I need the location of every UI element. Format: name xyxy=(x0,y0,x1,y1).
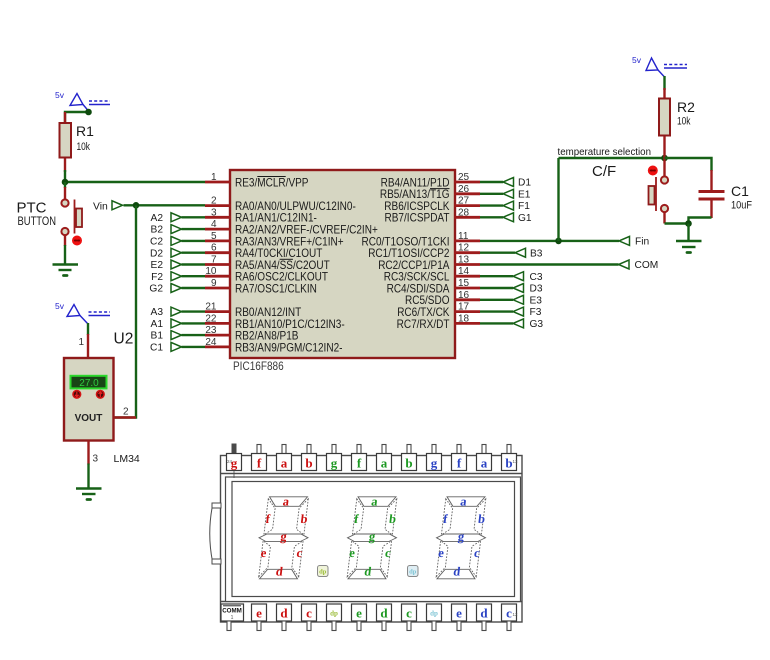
terminal D3 xyxy=(513,284,543,295)
display decimal point 2 xyxy=(408,566,419,577)
svg-text:c: c xyxy=(506,606,512,621)
terminal E2 xyxy=(151,260,182,271)
wire C2 to pin xyxy=(182,240,206,242)
svg-text:C3: C3 xyxy=(530,272,543,283)
svg-text:26: 26 xyxy=(458,184,470,195)
power +5V supply (above U2) xyxy=(67,305,110,325)
svg-text:B1: B1 xyxy=(151,331,164,342)
pin 5 (RA3/AN3/VREF+/C1IN+) stub xyxy=(205,239,231,242)
svg-text:g: g xyxy=(331,456,338,471)
terminal B1 xyxy=(151,331,182,342)
svg-text:A3: A3 xyxy=(151,307,164,318)
svg-text:16: 16 xyxy=(458,290,470,301)
terminal G3 xyxy=(513,319,543,330)
wire temperature selection horizontal xyxy=(559,157,665,159)
wire junction down to PTC xyxy=(64,182,66,188)
svg-text:21: 21 xyxy=(205,302,217,313)
terminal C1 xyxy=(150,342,182,353)
svg-text:1: 1 xyxy=(231,615,234,621)
wire pin to F3 xyxy=(480,310,513,312)
pin 16 (RC5/SDO) stub xyxy=(454,298,480,301)
wire pin12 to B3 xyxy=(480,251,515,253)
pin 27 (RB6/ICSPCLK) stub xyxy=(454,204,480,207)
svg-text:RB7/ICSPDAT: RB7/ICSPDAT xyxy=(385,211,451,225)
svg-text:14: 14 xyxy=(458,266,470,277)
wire A1 to pin xyxy=(182,322,206,324)
svg-text:B3: B3 xyxy=(530,248,543,259)
svg-text:e: e xyxy=(256,606,262,621)
wire pin to E1 xyxy=(480,193,503,195)
wire D2 to pin xyxy=(182,251,206,253)
svg-text:G3: G3 xyxy=(530,319,544,330)
svg-text:11: 11 xyxy=(458,231,469,242)
svg-text:C/F: C/F xyxy=(592,163,616,180)
svg-text:F1: F1 xyxy=(518,201,530,212)
svg-text:f: f xyxy=(257,456,262,471)
node Fin junction xyxy=(555,238,562,245)
pin 10 (RA6/OSC2/CLKOUT) stub xyxy=(205,275,231,278)
wire pin to E3 xyxy=(480,299,513,301)
node R2/button/C1 junction xyxy=(661,155,668,162)
pin 9 (RA7/OSC1/CLKIN) stub xyxy=(205,287,231,290)
svg-text:24: 24 xyxy=(227,459,233,464)
ground under PTC xyxy=(53,265,79,276)
svg-text:b: b xyxy=(305,456,312,471)
wire Vin to PIC pin 2 xyxy=(124,204,206,206)
svg-text:13: 13 xyxy=(513,459,519,464)
display top pin 5 (g) xyxy=(327,445,342,471)
pin 28 (RB7/ICSPDAT) stub xyxy=(454,216,480,219)
display bottom pin 7 (c) xyxy=(402,604,417,631)
svg-text:U2: U2 xyxy=(114,331,134,348)
svg-text:3: 3 xyxy=(211,207,217,218)
svg-text:dp: dp xyxy=(409,569,417,576)
display left common bracket xyxy=(210,503,221,564)
pin stub U2 pin3 / wire to ground xyxy=(87,441,89,465)
display digit 1 (red) xyxy=(254,494,313,578)
terminal C3 xyxy=(513,272,543,283)
display top pin 11 (a) xyxy=(477,445,492,471)
wire pin13 to COM xyxy=(480,263,619,265)
svg-text:27.0: 27.0 xyxy=(79,378,99,389)
display bottom pin 9 (e) xyxy=(452,604,467,631)
push button PTC BUTTON xyxy=(17,199,83,245)
pin 2 (RA0/AN0/ULPWU/C12IN0-) stub xyxy=(205,204,231,207)
display bottom pin 1 (e) xyxy=(252,604,267,631)
display bottom pin 5 (e) xyxy=(352,604,367,631)
node ground junction xyxy=(685,220,692,227)
ground top right xyxy=(676,241,702,253)
pin 11 (RC0/T1OSO/T1CKI) stub xyxy=(454,239,480,242)
svg-text:10uF: 10uF xyxy=(731,200,752,212)
pin 7 (RA5/AN4/SS/C2OUT) stub xyxy=(205,263,231,266)
display top pin 10 (f) xyxy=(452,445,467,471)
display top pin 2 (f) xyxy=(252,445,267,471)
svg-text:C1: C1 xyxy=(731,183,749,199)
svg-text:COMM: COMM xyxy=(222,608,242,615)
overline SS xyxy=(280,258,293,260)
svg-text:12: 12 xyxy=(458,243,470,254)
svg-text:23: 23 xyxy=(205,325,217,336)
svg-text:1: 1 xyxy=(211,172,217,183)
terminal A1 xyxy=(151,319,182,330)
display face xyxy=(226,477,521,602)
svg-text:Fin: Fin xyxy=(635,237,649,248)
svg-text:18: 18 xyxy=(458,313,470,324)
svg-text:B2: B2 xyxy=(151,225,164,236)
wire 5v to U2 pin 1 xyxy=(87,323,89,335)
wire pin to D3 xyxy=(480,287,513,289)
display top pin 7 (a) xyxy=(377,445,392,471)
wire junction to ground xyxy=(687,224,689,242)
wire pin to D1 xyxy=(480,181,503,183)
svg-text:BUTTON: BUTTON xyxy=(18,216,57,228)
svg-text:4: 4 xyxy=(211,219,217,230)
terminal D2 xyxy=(150,248,182,259)
terminal F1 xyxy=(503,201,530,212)
resistor R1 10k xyxy=(60,112,95,172)
svg-text:15: 15 xyxy=(458,278,470,289)
display bottom pin 10 (d) xyxy=(477,604,492,631)
node at 5v terminal xyxy=(85,109,92,116)
svg-text:1: 1 xyxy=(78,337,84,348)
display top pin 8 (b) xyxy=(402,445,417,471)
svg-text:f: f xyxy=(457,456,462,471)
svg-text:D3: D3 xyxy=(530,284,543,295)
terminal Vin xyxy=(93,201,123,213)
svg-text:6: 6 xyxy=(211,243,217,254)
microcontroller U1 PIC16F886 body xyxy=(230,170,455,358)
pin 3 (RA1/AN1/C12IN1-) stub xyxy=(205,216,231,219)
wire pin to G3 xyxy=(480,322,513,324)
svg-text:dp: dp xyxy=(430,610,438,618)
svg-text:7: 7 xyxy=(211,255,217,266)
svg-text:f: f xyxy=(357,456,362,471)
wire 5v node to R1 xyxy=(65,112,89,123)
push button C/F xyxy=(648,166,668,213)
svg-text:5v: 5v xyxy=(55,90,65,100)
wire R1 bottom to PIC pin 1 xyxy=(65,170,205,182)
power +5V supply (top right) xyxy=(646,58,687,77)
svg-text:RA7/OSC1/CLKIN: RA7/OSC1/CLKIN xyxy=(235,281,317,295)
terminal C2 xyxy=(150,236,182,247)
wire E2 to pin xyxy=(182,263,206,265)
terminal Fin xyxy=(619,236,649,247)
svg-text:dp: dp xyxy=(319,569,327,576)
svg-text:28: 28 xyxy=(458,207,470,218)
pin 12 (RC1/T1OSI/CCP2) stub xyxy=(454,251,480,254)
svg-text:g: g xyxy=(431,456,438,471)
display bottom pin 11 (c) xyxy=(502,604,519,631)
wire C/F button to ground junction xyxy=(663,212,665,224)
svg-text:temperature selection: temperature selection xyxy=(558,146,652,158)
pin 13 (RC2/CCP1/P1A) stub xyxy=(454,263,480,266)
svg-text:9: 9 xyxy=(211,278,217,289)
pin 21 (RB0/AN12/INT) stub xyxy=(205,310,231,313)
svg-text:C1: C1 xyxy=(150,343,163,354)
display decimal point 1 xyxy=(318,566,329,577)
wire Vin junction down to LM34 VOUT xyxy=(114,205,137,417)
svg-text:2: 2 xyxy=(211,196,217,207)
wire Fin junction up to temperature selection net xyxy=(557,158,559,241)
overline T1G xyxy=(430,188,450,190)
svg-text:10k: 10k xyxy=(77,141,91,153)
terminal D1 xyxy=(503,178,531,189)
wire pin to G1 xyxy=(480,216,503,218)
display top pin 9 (g) xyxy=(427,445,442,471)
svg-text:dp: dp xyxy=(330,610,338,618)
terminal COM xyxy=(619,260,659,271)
display top pin 3 (a) xyxy=(277,445,292,471)
terminal B2 xyxy=(151,225,182,236)
ground under U2 xyxy=(76,489,102,500)
svg-text:PTC: PTC xyxy=(17,200,47,217)
wire B1 to pin xyxy=(182,334,206,336)
pin 25 (RB4/AN11/P1D) stub xyxy=(454,181,480,184)
pin 22 (RB1/AN10/P1C/C12IN3-) stub xyxy=(205,322,231,325)
wire pin to F1 xyxy=(480,204,503,206)
pin 18 (RC7/RX/DT) stub xyxy=(454,322,480,325)
wire B2 to pin xyxy=(182,228,206,230)
display bottom pin 4 (dp) xyxy=(327,604,342,631)
svg-text:13: 13 xyxy=(458,255,470,266)
wire pin to C3 xyxy=(480,275,513,277)
capacitor C1 10uF xyxy=(699,170,753,218)
svg-text:D2: D2 xyxy=(150,248,163,259)
svg-text:COM: COM xyxy=(635,260,659,271)
terminal G1 xyxy=(503,213,532,224)
svg-text:R2: R2 xyxy=(677,99,695,115)
terminal F3 xyxy=(513,307,542,318)
power +5V supply (top left) xyxy=(70,94,110,112)
svg-text:G2: G2 xyxy=(149,284,163,295)
svg-text:c: c xyxy=(406,606,412,621)
svg-text:Vin: Vin xyxy=(93,202,108,213)
display digit 3 (blue) xyxy=(431,494,490,578)
wire pin11 to Fin xyxy=(480,240,619,242)
svg-text:RB3/AN9/PGM/C12IN2-: RB3/AN9/PGM/C12IN2- xyxy=(235,340,343,354)
svg-text:2: 2 xyxy=(123,407,129,418)
wire junction to C1 xyxy=(665,158,712,171)
display digit 2 (green) xyxy=(342,494,401,578)
terminal E3 xyxy=(513,295,542,306)
node Vin junction xyxy=(133,202,140,209)
svg-text:a: a xyxy=(381,456,388,471)
display bottom pin 8 (dp) xyxy=(427,604,442,631)
display top pin 6 (f) xyxy=(352,445,367,471)
svg-text:E3: E3 xyxy=(530,295,543,306)
pin 17 (RC6/TX/CK) stub xyxy=(454,310,480,313)
svg-text:a: a xyxy=(481,456,488,471)
display top pin 12 (b) xyxy=(502,445,519,471)
svg-text:25: 25 xyxy=(458,172,470,183)
svg-text:LM34: LM34 xyxy=(114,453,140,465)
display bottom pin 0 (COMM) xyxy=(221,604,244,631)
wire A2 to pin xyxy=(182,216,206,218)
svg-text:c: c xyxy=(306,606,312,621)
pin stub U2 pin2 xyxy=(114,416,137,418)
resistor R2 10k xyxy=(659,88,695,158)
svg-text:F3: F3 xyxy=(530,307,542,318)
svg-text:PIC16F886: PIC16F886 xyxy=(233,359,284,373)
svg-text:VOUT: VOUT xyxy=(75,413,103,424)
wire junction to C/F button xyxy=(663,158,665,177)
svg-text:R1: R1 xyxy=(76,123,94,139)
display bottom pin 3 (c) xyxy=(302,604,317,631)
display DS1 3-digit 7-segment package outline xyxy=(221,456,523,623)
pin 23 (RB2/AN8/P1B) stub xyxy=(205,334,231,337)
wire C1 to ground junction xyxy=(689,218,712,224)
wire 5v to R2 xyxy=(663,76,665,90)
pin 6 (RA4/T0CKI/C1OUT) stub xyxy=(205,251,231,254)
svg-text:E1: E1 xyxy=(518,189,531,200)
svg-text:F2: F2 xyxy=(151,272,163,283)
node R1/PTC junction xyxy=(62,179,69,186)
pin 4 (RA2/AN2/VREF-/CVREF/C2IN+) stub xyxy=(205,228,231,231)
svg-text:E2: E2 xyxy=(151,260,164,271)
svg-text:d: d xyxy=(480,606,488,621)
svg-text:3: 3 xyxy=(93,454,99,465)
svg-text:RC7/RX/DT: RC7/RX/DT xyxy=(397,317,450,331)
svg-text:10k: 10k xyxy=(677,116,691,128)
wire A3 to pin xyxy=(182,310,206,312)
overline MCLR xyxy=(257,176,285,178)
svg-text:A1: A1 xyxy=(151,319,164,330)
svg-text:22: 22 xyxy=(205,313,217,324)
svg-text:a: a xyxy=(281,456,288,471)
svg-text:5: 5 xyxy=(211,231,217,242)
terminal A3 xyxy=(151,307,182,318)
pin 14 (RC3/SCK/SCL) stub xyxy=(454,275,480,278)
pin 24 (RB3/AN9/PGM/C12IN2-) stub xyxy=(205,345,231,348)
display top pin 1 (g) xyxy=(227,444,242,479)
display bottom pin 2 (d) xyxy=(277,604,292,631)
svg-text:C2: C2 xyxy=(150,237,163,248)
svg-text:D1: D1 xyxy=(518,178,531,189)
terminal E1 xyxy=(503,189,531,200)
temperature sensor U2 LM34 xyxy=(64,358,114,441)
svg-text:e: e xyxy=(456,606,462,621)
svg-text:27: 27 xyxy=(458,196,470,207)
wire G2 to pin xyxy=(182,287,206,289)
svg-text:RE3/MCLR/VPP: RE3/MCLR/VPP xyxy=(235,175,309,189)
svg-text:5v: 5v xyxy=(55,301,65,311)
pin 1 (RE3/MCLR/VPP) stub xyxy=(205,181,231,184)
svg-text:10: 10 xyxy=(205,266,217,277)
terminal G2 xyxy=(149,284,181,295)
svg-text:5v: 5v xyxy=(632,55,642,65)
terminal B3 xyxy=(515,248,543,259)
svg-text:d: d xyxy=(280,606,288,621)
wire C1 to pin xyxy=(182,346,206,348)
terminal A2 xyxy=(151,213,182,224)
display bottom pin 6 (d) xyxy=(377,604,392,631)
wire PTC to ground xyxy=(64,235,66,246)
svg-text:24: 24 xyxy=(205,337,217,348)
svg-text:d: d xyxy=(380,606,388,621)
pin 15 (RC4/SDI/SDA) stub xyxy=(454,287,480,290)
svg-text:e: e xyxy=(356,606,362,621)
svg-text:A2: A2 xyxy=(151,213,164,224)
svg-text:b: b xyxy=(405,456,412,471)
svg-text:17: 17 xyxy=(458,302,470,313)
pin 26 (RB5/AN13/T1G) stub xyxy=(454,192,480,195)
svg-text:G1: G1 xyxy=(518,213,532,224)
wire F2 to pin xyxy=(182,275,206,277)
terminal F2 xyxy=(151,272,181,283)
display top pin 4 (b) xyxy=(302,445,317,471)
svg-text:12: 12 xyxy=(513,612,519,617)
